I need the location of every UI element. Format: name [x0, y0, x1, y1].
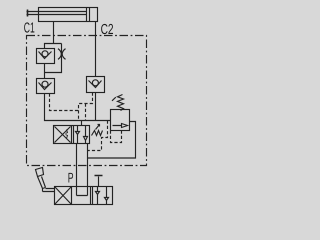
- pump internal bridge: [77, 187, 88, 196]
- check valve CV1 box: [37, 49, 55, 64]
- check valve CV3 ball: [92, 80, 98, 86]
- DV1 left box arrow barbs: [66, 130, 68, 139]
- DV1 right box check arrow 2: [84, 126, 88, 144]
- relief valve RV1 pilot U (dashed): [111, 131, 122, 143]
- check valve CV1 seat: [39, 52, 52, 59]
- svg-text:P: P: [68, 170, 74, 186]
- svg-text:C2: C2: [101, 22, 114, 38]
- check valve CV2 ball: [42, 81, 48, 87]
- wire orifice branch: [45, 44, 62, 73]
- check valve CV3 box: [87, 77, 105, 93]
- relief valve RV1 outlet wire: [88, 122, 136, 159]
- check valve CV3 seat: [89, 81, 102, 88]
- wire C1 tee: [45, 44, 62, 49]
- relief valve RV1 arrow: [113, 124, 128, 128]
- cylinder rod end cap: [27, 10, 29, 17]
- pump check arrow 1: [96, 187, 100, 205]
- pump check arrow 2: [105, 187, 109, 205]
- lever grip: [36, 168, 44, 177]
- wire C1 to valve: [45, 94, 111, 126]
- check valve CV2 seat: [39, 83, 52, 90]
- wire C2 drop from cylinder: [95, 22, 97, 77]
- DV1 right box check arrow 1: [76, 126, 80, 144]
- cylinder rod: [27, 12, 87, 15]
- relief valve RV1 pilot loop (dashed): [88, 121, 108, 151]
- pilot line from CV3 (dashed): [79, 93, 93, 121]
- label T with port stub: [98, 177, 100, 187]
- DV1 manual arrow: [96, 125, 100, 130]
- DV1 left box crossed lines: [55, 127, 71, 143]
- pump section X: [55, 187, 72, 205]
- relief valve RV1 body: [111, 110, 130, 131]
- pump divider 1: [71, 187, 73, 205]
- orifice O1: [58, 49, 66, 60]
- pump manifold box: [55, 187, 113, 205]
- wire valve port T down: [87, 144, 89, 187]
- DV1 spring: [92, 131, 103, 136]
- pilot line from CV2 (dashed): [50, 94, 79, 111]
- relief valve RV1 adjust arrow: [112, 97, 116, 101]
- lever foot: [43, 188, 55, 192]
- svg-text:C1: C1: [24, 21, 35, 37]
- pilot branch to valve line (dashed): [85, 104, 87, 121]
- pump divider 3: [92, 187, 94, 205]
- lever arm: [38, 177, 46, 189]
- relief valve RV1 spring: [118, 95, 124, 111]
- pump divider 2: [90, 187, 92, 205]
- check valve CV2 box: [37, 79, 55, 94]
- wire valve port P down: [76, 144, 78, 187]
- directional valve DV1 body: [54, 126, 90, 144]
- wire C2 below CV3: [95, 93, 97, 121]
- enclosure phantom border: [27, 36, 147, 166]
- check valve CV1 ball: [42, 51, 48, 57]
- wire C1 drop from cylinder: [53, 22, 55, 44]
- cylinder body: [39, 8, 98, 22]
- DV1 divider: [72, 126, 74, 144]
- cylinder piston: [87, 8, 90, 22]
- wire below CV1: [44, 64, 46, 79]
